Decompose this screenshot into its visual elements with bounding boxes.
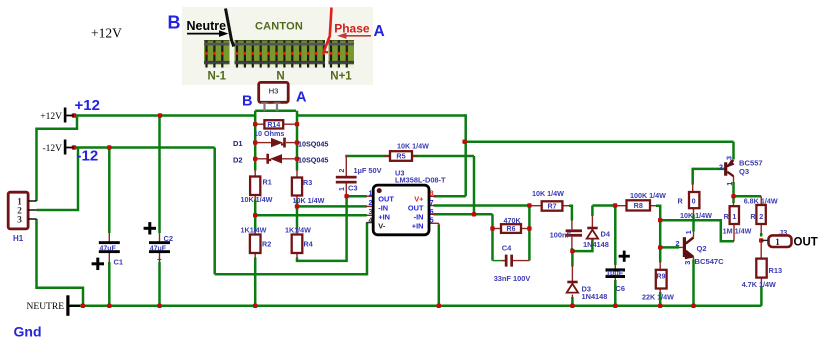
svg-text:N+1: N+1 <box>330 71 352 83</box>
svg-text:1N4148: 1N4148 <box>582 292 608 301</box>
svg-text:10SQ045: 10SQ045 <box>298 156 328 165</box>
svg-text:A: A <box>296 90 307 106</box>
svg-text:OUT: OUT <box>794 237 818 249</box>
svg-text:R14: R14 <box>267 122 280 129</box>
svg-text:D4: D4 <box>601 230 611 239</box>
svg-text:2: 2 <box>339 169 346 173</box>
svg-text:NEUTRE: NEUTRE <box>27 302 65 312</box>
svg-text:+12V: +12V <box>91 26 122 41</box>
svg-text:+12: +12 <box>75 97 100 114</box>
svg-text:+12V: +12V <box>40 112 62 122</box>
svg-text:1: 1 <box>732 212 736 221</box>
svg-text:7: 7 <box>430 198 434 207</box>
svg-text:1: 1 <box>684 230 693 234</box>
svg-text:2: 2 <box>369 198 373 207</box>
svg-text:A: A <box>374 23 385 40</box>
svg-text:0: 0 <box>692 197 696 206</box>
svg-text:10uF: 10uF <box>606 269 624 278</box>
svg-text:LM358L-D08-T: LM358L-D08-T <box>395 176 446 185</box>
svg-text:10K 1/4W: 10K 1/4W <box>397 141 429 150</box>
svg-text:B: B <box>242 94 252 110</box>
svg-text:10K 1/4W: 10K 1/4W <box>532 189 564 198</box>
svg-text:C1: C1 <box>114 258 124 267</box>
svg-text:1µF 50V: 1µF 50V <box>354 166 382 175</box>
svg-text:H3: H3 <box>269 87 279 96</box>
svg-text:8: 8 <box>430 188 434 197</box>
svg-text:B: B <box>168 13 181 33</box>
svg-text:R: R <box>724 212 730 221</box>
svg-text:1: 1 <box>775 237 780 247</box>
svg-text:5: 5 <box>430 215 434 224</box>
svg-text:Phase: Phase <box>334 21 370 35</box>
svg-text:C2: C2 <box>164 234 174 243</box>
svg-text:1: 1 <box>339 187 346 191</box>
svg-text:22K 1/4W: 22K 1/4W <box>642 293 674 302</box>
svg-text:BC557: BC557 <box>739 158 763 167</box>
svg-text:V-: V- <box>378 222 386 231</box>
svg-text:10K 1/4W: 10K 1/4W <box>241 195 273 204</box>
svg-text:C3: C3 <box>348 184 358 193</box>
svg-text:D1: D1 <box>233 139 243 148</box>
svg-text:R13: R13 <box>769 266 783 275</box>
svg-text:OUT: OUT <box>378 194 394 203</box>
svg-text:V+: V+ <box>414 194 424 203</box>
svg-text:3: 3 <box>17 215 22 225</box>
svg-text:10K 1/4W: 10K 1/4W <box>293 196 325 205</box>
svg-text:Q2: Q2 <box>697 244 707 253</box>
svg-text:-12: -12 <box>77 148 99 165</box>
svg-text:R2: R2 <box>262 240 271 249</box>
svg-text:+IN: +IN <box>412 222 424 231</box>
svg-text:-IN: -IN <box>378 203 388 212</box>
svg-text:R: R <box>750 212 756 221</box>
svg-text:33nF 100V: 33nF 100V <box>494 274 531 283</box>
svg-text:N-1: N-1 <box>208 71 227 83</box>
svg-text:1M 1/4W: 1M 1/4W <box>723 226 752 235</box>
svg-text:100nF: 100nF <box>550 231 572 240</box>
svg-text:C4: C4 <box>502 243 512 252</box>
svg-text:N: N <box>276 71 284 83</box>
svg-text:C6: C6 <box>616 284 625 293</box>
svg-text:R1: R1 <box>263 178 272 187</box>
svg-text:CANTON: CANTON <box>255 21 303 33</box>
svg-text:-IN: -IN <box>414 212 424 221</box>
svg-text:47uF: 47uF <box>150 245 167 252</box>
svg-text:-12V: -12V <box>42 144 62 154</box>
svg-text:1: 1 <box>725 182 734 186</box>
svg-text:1K1/4W: 1K1/4W <box>241 226 267 235</box>
svg-text:Gnd: Gnd <box>14 324 42 340</box>
svg-text:3: 3 <box>725 156 734 160</box>
svg-text:1: 1 <box>369 188 373 197</box>
svg-text:Q3: Q3 <box>739 167 749 176</box>
svg-text:R8: R8 <box>634 201 643 210</box>
svg-text:3: 3 <box>683 261 692 265</box>
svg-text:BC547C: BC547C <box>695 257 725 266</box>
svg-text:+IN: +IN <box>378 212 390 221</box>
svg-text:1N4148: 1N4148 <box>583 240 609 249</box>
svg-text:R9: R9 <box>657 273 666 280</box>
svg-text:10K 1/4W: 10K 1/4W <box>680 211 712 220</box>
svg-text:D2: D2 <box>233 156 243 165</box>
svg-text:R7: R7 <box>547 202 556 211</box>
svg-text:R4: R4 <box>304 240 313 249</box>
svg-text:R5: R5 <box>396 152 405 161</box>
svg-text:2: 2 <box>676 239 680 248</box>
svg-text:OUT: OUT <box>408 203 424 212</box>
svg-text:R: R <box>678 197 684 206</box>
svg-text:4.7K 1/4W: 4.7K 1/4W <box>742 280 776 289</box>
svg-text:R6: R6 <box>507 226 516 233</box>
svg-text:R3: R3 <box>303 178 312 187</box>
svg-text:4: 4 <box>369 215 373 224</box>
svg-text:H1: H1 <box>13 234 24 243</box>
svg-text:47uF: 47uF <box>100 245 117 252</box>
svg-text:10 Ohms: 10 Ohms <box>254 129 284 138</box>
svg-text:100K 1/4W: 100K 1/4W <box>630 191 666 200</box>
svg-text:2: 2 <box>719 162 723 171</box>
svg-text:1K1/4W: 1K1/4W <box>285 226 311 235</box>
svg-text:+: + <box>157 255 162 264</box>
svg-text:10SQ045: 10SQ045 <box>298 139 328 148</box>
svg-text:2: 2 <box>759 212 763 221</box>
